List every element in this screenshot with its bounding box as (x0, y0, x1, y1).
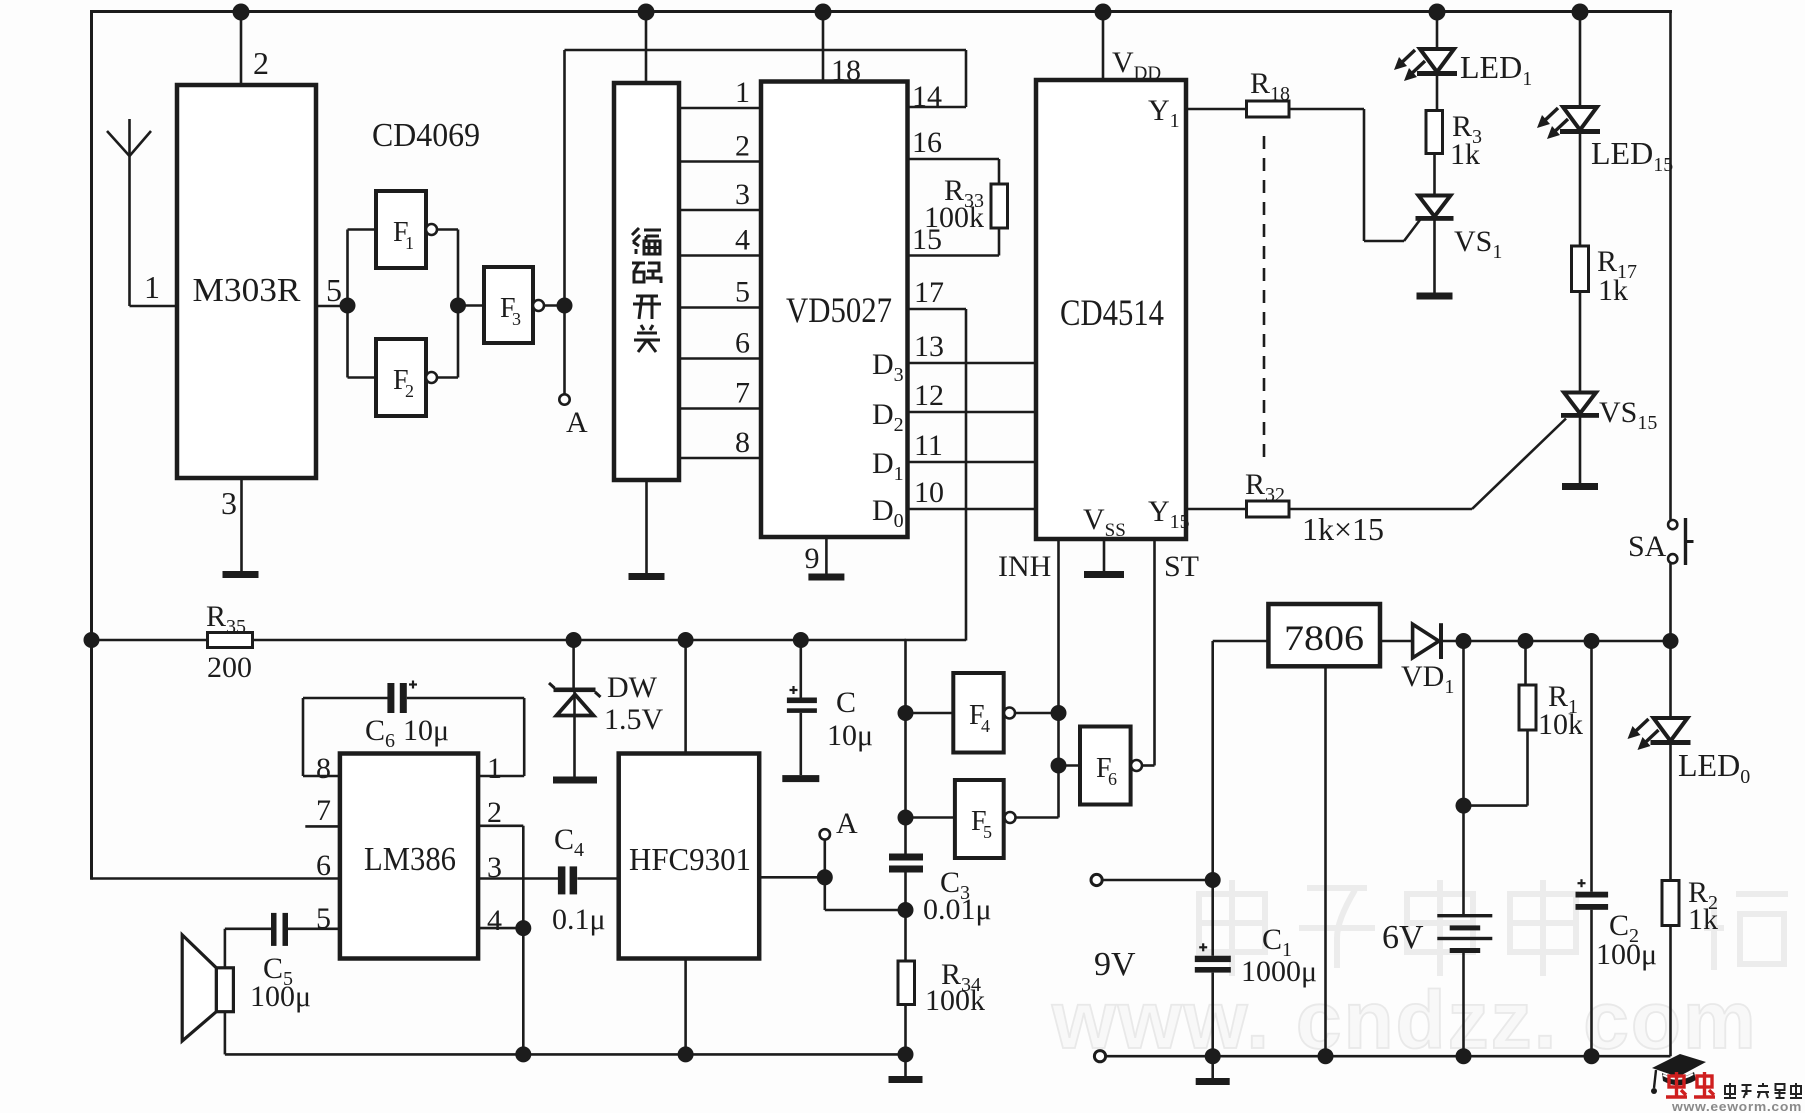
node A terminal near HFC9301 (820, 829, 830, 839)
node: C2 minus junction (1584, 1048, 1600, 1064)
inverter F1 (376, 191, 426, 268)
svg-text:6: 6 (735, 327, 750, 360)
wire: C2 column (1590, 641, 1593, 892)
node: pin2/pin4 junction (515, 920, 531, 936)
wire: F4 output to INH line (1015, 712, 1059, 715)
wire: node up to F1 input (346, 230, 349, 306)
wire: F4 input (906, 712, 954, 715)
wire: RC column from rail (904, 640, 907, 854)
svg-text:3: 3 (512, 309, 521, 329)
diode VD1 (1413, 623, 1443, 659)
wire: bottom audio rail (225, 1053, 906, 1056)
node: left border / R35 rail (84, 632, 100, 648)
watermark: chinese download site text (1724, 1083, 1802, 1098)
svg-text:1k: 1k (1598, 274, 1628, 307)
inverter F2 (376, 339, 426, 416)
wire: C6 to pin1 (407, 697, 524, 700)
wire: A line top across to VD5027 pin14 (565, 49, 967, 52)
IC U-M303R (177, 85, 316, 478)
encoder ground (645, 480, 648, 573)
node: battery minus junction (1456, 1048, 1472, 1064)
wire: 7806 common pin (1324, 666, 1327, 1056)
node: C2 tap (1584, 633, 1600, 649)
wire: encoder top to rail (645, 11, 648, 83)
wire: M303R pin5 to node (316, 305, 348, 308)
svg-text:11: 11 (914, 429, 943, 462)
wire: C1 to bottom rail (1211, 973, 1214, 1078)
svg-text:100μ: 100μ (1596, 938, 1657, 971)
wire: +6V rail (1443, 640, 1671, 643)
node: M303R pin5 junction (340, 298, 356, 314)
node: C1 ground junction (1205, 1048, 1221, 1064)
wire: F5 input (906, 816, 955, 819)
speaker BL (182, 935, 233, 1041)
svg-text:200: 200 (207, 651, 252, 684)
wire: 9V+ riser to 7806 input (1213, 640, 1269, 643)
inverter F4 (953, 673, 1003, 753)
wire: pin6 feed from left border to LM386 (92, 877, 342, 880)
wire: R3 to VS1 (1433, 154, 1436, 197)
wire: R34 to bottom rail (904, 1005, 907, 1077)
node: DW tap (566, 632, 582, 648)
wire: pin3 to C4 (478, 877, 558, 880)
svg-text:18: 18 (831, 54, 861, 87)
svg-text:INH: INH (998, 550, 1051, 583)
svg-text:VD1: VD1 (1401, 660, 1454, 698)
wire: right border from top rail to SA (1669, 10, 1672, 520)
svg-text:4: 4 (735, 224, 750, 257)
watermark: chongchong red glyphs (1666, 1072, 1715, 1097)
wire: Y15 to R32 (1186, 508, 1247, 511)
wire: ST down to F6 output (1153, 539, 1156, 766)
wire: HFC9301 top to rail (684, 640, 687, 754)
svg-text:C4: C4 (554, 823, 584, 861)
ground: C (782, 775, 819, 782)
node: C cap tap (793, 632, 809, 648)
wire: VSS to ground (1103, 539, 1106, 571)
terminal: 9V plus (1091, 874, 1102, 885)
wire: output node to C3 bottom (823, 877, 826, 910)
wire: R1 column (1524, 641, 1527, 685)
wire: F6 output to ST line (1142, 764, 1155, 767)
inverter F5 (955, 780, 1004, 858)
wire: A line vertical (563, 50, 566, 395)
svg-text:0.01μ: 0.01μ (923, 893, 992, 926)
wire: M303R pin3 down (240, 478, 243, 571)
wire: C4 to HFC9301 (577, 877, 618, 880)
svg-text:M303R: M303R (193, 272, 301, 309)
wire: encoder to VD5027 pin6 (679, 357, 761, 360)
svg-text:10μ: 10μ (403, 714, 449, 747)
node A terminal (559, 394, 569, 404)
svg-text:14: 14 (912, 80, 942, 113)
svg-text:ST: ST (1164, 550, 1199, 583)
F5 output bubble (1005, 812, 1016, 823)
LED LED0 (1628, 718, 1691, 750)
svg-text:7806: 7806 (1284, 618, 1364, 658)
svg-text:LED1: LED1 (1460, 49, 1532, 90)
svg-text:5: 5 (326, 272, 342, 308)
svg-text:3: 3 (735, 178, 750, 211)
wire: F1 output to junction (437, 228, 458, 231)
wire: bottom power rail (1106, 1055, 1671, 1058)
wire: F6 input (1059, 764, 1081, 767)
resistor R3 (1426, 111, 1443, 154)
wire: LED15 to R17 (1579, 134, 1582, 246)
node: R1 tap (1518, 633, 1534, 649)
capacitor C3 (889, 854, 923, 861)
node: 9V plus junction (1205, 872, 1221, 888)
resistor R35 (208, 633, 253, 648)
wire: LED0 to R2 (1669, 745, 1672, 881)
svg-text:8: 8 (735, 426, 750, 459)
thyristor VS1 (1416, 196, 1454, 221)
zener diode DW (549, 640, 601, 777)
wire: rail to pin17 riser (905, 639, 967, 642)
wire: pin5 to C5 (288, 927, 340, 930)
svg-text:1: 1 (735, 76, 750, 109)
resistor R18 (1247, 101, 1290, 117)
node: SA / LED0 tap (1663, 633, 1679, 649)
svg-text:12: 12 (914, 379, 944, 412)
svg-text:1.5V: 1.5V (604, 703, 664, 736)
dashed line: Y2..Y14 implied (1263, 136, 1266, 457)
svg-text:LED15: LED15 (1591, 135, 1673, 176)
wire: R35 to RC junction (253, 639, 907, 642)
capacitor C5 (271, 913, 277, 946)
svg-text:15: 15 (912, 223, 942, 256)
wire: HFC9301 bottom to rail (684, 959, 687, 1055)
wire: R1 bottom to battery column (1526, 730, 1529, 806)
svg-text:1: 1 (405, 233, 414, 253)
svg-text:8: 8 (316, 752, 331, 785)
svg-text:HFC9301: HFC9301 (629, 841, 751, 877)
svg-text:6V: 6V (1382, 919, 1424, 956)
svg-text:17: 17 (914, 276, 944, 309)
wire: 7806 output to VD1 (1380, 640, 1413, 643)
ground: VS1 (1417, 293, 1453, 300)
ground: DW (553, 777, 597, 784)
wire: VD5027 pin9 to ground (825, 537, 828, 574)
antenna (107, 119, 151, 306)
wire: VD5027 pin10 to CD4514 (908, 508, 1036, 511)
F6 output bubble (1131, 760, 1142, 771)
ground: bottom rail (1196, 1078, 1230, 1085)
node: HFC9301 supply tap (678, 632, 694, 648)
svg-text:13: 13 (914, 330, 944, 363)
wire: encoder to VD5027 pin5 (679, 306, 761, 309)
svg-text:100μ: 100μ (250, 980, 311, 1013)
wire: encoder to VD5027 pin8 (679, 457, 761, 460)
wire: M303R pin2 to top rail (240, 11, 243, 85)
wire: VS15 to ground (1579, 417, 1582, 483)
svg-text:1k: 1k (1688, 903, 1718, 936)
ground: M303R pin3 (223, 571, 259, 578)
wire: C3 to R34 (904, 873, 907, 962)
wire: rail from border to R35 (92, 639, 209, 642)
svg-text:R18: R18 (1250, 67, 1290, 105)
svg-text:10k: 10k (1538, 708, 1583, 741)
wire: VD5027 pin12 to CD4514 (908, 411, 1036, 414)
F4 output bubble (1004, 708, 1015, 719)
node: F3 output / A line (557, 298, 573, 314)
svg-text:0.1μ: 0.1μ (552, 903, 606, 936)
IC VD5027 (761, 82, 908, 538)
node: F5 input tap (898, 810, 914, 826)
F2 output bubble (426, 372, 437, 383)
node: F4 out / INH (1051, 705, 1067, 721)
resistor R32 (1247, 501, 1290, 517)
wire: F5 output to INH line (1016, 816, 1059, 819)
ground: VSS (1084, 571, 1124, 578)
node: C3 bottom junction (898, 902, 914, 918)
ground: VS15 (1562, 483, 1598, 490)
battery 6V (1437, 914, 1492, 953)
ground: R34 (889, 1076, 923, 1083)
wire: LED1 to R3 (1436, 76, 1439, 111)
wire: antenna to M303R pin1 (130, 305, 178, 308)
node: top rail junctions (233, 4, 250, 21)
wire: junction to F3 input (458, 304, 484, 307)
wire: R33 to pin15 (998, 228, 1001, 256)
wire: speaker to bottom rail (224, 1012, 227, 1055)
wire: VS1 to ground (1433, 220, 1436, 293)
wire: VDD to rail (1102, 11, 1105, 80)
svg-text:C6: C6 (365, 714, 395, 752)
F1 output bubble (426, 224, 437, 235)
node: HFC output junction (817, 869, 833, 885)
svg-text:7: 7 (735, 377, 750, 410)
svg-text:CD4514: CD4514 (1060, 293, 1164, 334)
wire: pin7 stub (305, 825, 340, 828)
svg-text:VD5027: VD5027 (786, 290, 892, 330)
svg-text:10μ: 10μ (827, 719, 873, 752)
wire: battery column upper (1462, 641, 1465, 914)
svg-text:10: 10 (914, 476, 944, 509)
svg-text:5: 5 (735, 276, 750, 309)
IC LM386 (340, 754, 478, 959)
capacitor C 10u (787, 640, 817, 775)
ground: VD5027 pin9 (808, 574, 844, 581)
capacitor C1 (1195, 956, 1231, 962)
svg-text:100k: 100k (925, 984, 985, 1017)
wire: pin16 to R33 (908, 158, 999, 161)
svg-text:9: 9 (805, 542, 820, 575)
svg-text:CD4069: CD4069 (372, 117, 480, 154)
node: LM386 pin4 drop (515, 1046, 531, 1062)
svg-text:2: 2 (735, 130, 750, 163)
svg-text:www.eeworm.com: www.eeworm.com (1671, 1099, 1802, 1113)
capacitor C4 (558, 866, 566, 894)
wire: F2 output to junction (437, 376, 458, 379)
wire: right border from SA to +6V rail (1669, 564, 1672, 643)
wire: 9V plus to C1 node (1102, 879, 1213, 882)
svg-text:www. cndzz. com: www. cndzz. com (1051, 975, 1758, 1066)
svg-text:6: 6 (316, 849, 331, 882)
wire: top supply rail (90, 10, 1672, 13)
wire: node down to F2 input (346, 306, 349, 378)
wire: VD5027 pin11 to CD4514 (908, 461, 1036, 464)
svg-text:R35: R35 (206, 600, 246, 638)
wire: pin4 to junction (478, 927, 523, 930)
resistor R2 (1662, 881, 1679, 926)
F3 output bubble (533, 300, 544, 311)
IC CD4514 (1036, 80, 1186, 539)
watermark: eeworm logo cap (1651, 1054, 1706, 1094)
IC: encoder switch block (614, 83, 679, 480)
wire: encoder to VD5027 pin1 (679, 107, 761, 110)
wire: VS1 gate diagonal (1404, 219, 1421, 242)
svg-text:LM386: LM386 (364, 841, 456, 878)
svg-text:VDD: VDD (1112, 46, 1161, 84)
wire: VD5027 pin13 to CD4514 (908, 362, 1036, 365)
svg-text:4: 4 (981, 716, 990, 736)
switch SA (1668, 518, 1693, 565)
wire: encoder to VD5027 pin2 (679, 160, 761, 163)
capacitor C2 (1576, 892, 1609, 898)
resistor R17 (1572, 246, 1589, 292)
node: R1 bottom join (1456, 798, 1472, 814)
LED LED15 (1537, 107, 1600, 139)
IC HFC9301 (619, 754, 760, 959)
wire: pin8 to C6 loop (303, 775, 340, 778)
label: encoder switch chinese text (632, 228, 661, 352)
node: R34 / rail end (898, 1046, 914, 1062)
node: F4 input tap (898, 705, 914, 721)
inverter F6 (1080, 727, 1131, 805)
svg-text:1: 1 (487, 752, 502, 785)
LED LED1 (1394, 49, 1457, 81)
svg-text:R32: R32 (1245, 468, 1285, 506)
svg-text:A: A (566, 406, 588, 439)
wire: pin17 right and down to RC net (908, 308, 966, 311)
wire: pin2 to pin4 junction (478, 824, 523, 827)
svg-text:1: 1 (144, 269, 160, 305)
node: HFC9301 ground drop (678, 1046, 694, 1062)
node: F1/F2 outputs join (450, 298, 466, 314)
svg-text:6: 6 (1108, 769, 1117, 789)
wire: LED0 column (1669, 641, 1672, 719)
svg-text:3: 3 (221, 485, 237, 521)
thyristor VS15 (1561, 393, 1599, 418)
svg-text:DW: DW (607, 671, 658, 704)
svg-text:4: 4 (487, 904, 502, 937)
svg-text:9V: 9V (1094, 946, 1136, 983)
svg-text:2: 2 (253, 45, 269, 81)
wire: battery to bottom rail (1462, 953, 1465, 1056)
wire: encoder to VD5027 pin4 (679, 254, 761, 257)
capacitor C6 (387, 683, 394, 713)
svg-text:VS1: VS1 (1454, 225, 1502, 263)
resistor R1 (1519, 685, 1536, 730)
svg-text:1000μ: 1000μ (1241, 955, 1317, 988)
wire: LED15 column (1579, 11, 1582, 107)
node: battery column tap (1456, 633, 1472, 649)
wire: C1 column (1211, 880, 1214, 956)
wire: HFC9301 out to node A (759, 876, 825, 879)
svg-text:2: 2 (487, 796, 502, 829)
svg-text:7: 7 (316, 794, 331, 827)
svg-text:VS15: VS15 (1599, 396, 1657, 434)
wire: R17 to VS15 (1579, 292, 1582, 394)
wire: R32 to VS15 gate (1289, 508, 1472, 511)
resistor R34 (898, 961, 915, 1005)
inverter F3 (484, 267, 533, 343)
wire: INH down to F4/F5 outputs (1057, 539, 1060, 818)
wire: junction down to bottom rail (522, 928, 525, 1054)
svg-text:A: A (836, 807, 858, 840)
terminal: 9V minus (1094, 1051, 1105, 1062)
wire: R18 to VS1 gate path (1289, 108, 1364, 111)
svg-text:1k: 1k (1450, 138, 1480, 171)
node: 7806 common junction (1318, 1048, 1334, 1064)
svg-text:16: 16 (912, 126, 942, 159)
svg-text:SA: SA (1628, 530, 1667, 563)
wire: A circle to output node (823, 840, 826, 878)
wire: encoder to VD5027 pin7 (679, 407, 761, 410)
wire: VD5027 pin18 to rail (822, 11, 825, 82)
resistor R33 (991, 184, 1008, 228)
svg-text:C: C (836, 686, 856, 719)
node: F6 input tap (1051, 758, 1067, 774)
wire: C5 to speaker (225, 927, 271, 930)
svg-text:LED0: LED0 (1678, 747, 1750, 788)
wire: F3 output to node A line (544, 304, 565, 307)
svg-text:5: 5 (983, 822, 992, 842)
wire: LED1 column (1436, 11, 1439, 49)
wire: C2 to bottom rail (1590, 910, 1593, 1056)
wire: left border down to LM386 pin6 level (90, 10, 93, 880)
faint site watermark text (1199, 880, 1788, 976)
svg-text:1k×15: 1k×15 (1302, 511, 1384, 547)
svg-text:2: 2 (405, 381, 414, 401)
wire: R2 to bottom rail (1669, 926, 1672, 1057)
regulator 7806 (1268, 604, 1380, 666)
wire: encoder to VD5027 pin3 (679, 209, 761, 212)
wire: Y1 to R18 (1186, 108, 1247, 111)
